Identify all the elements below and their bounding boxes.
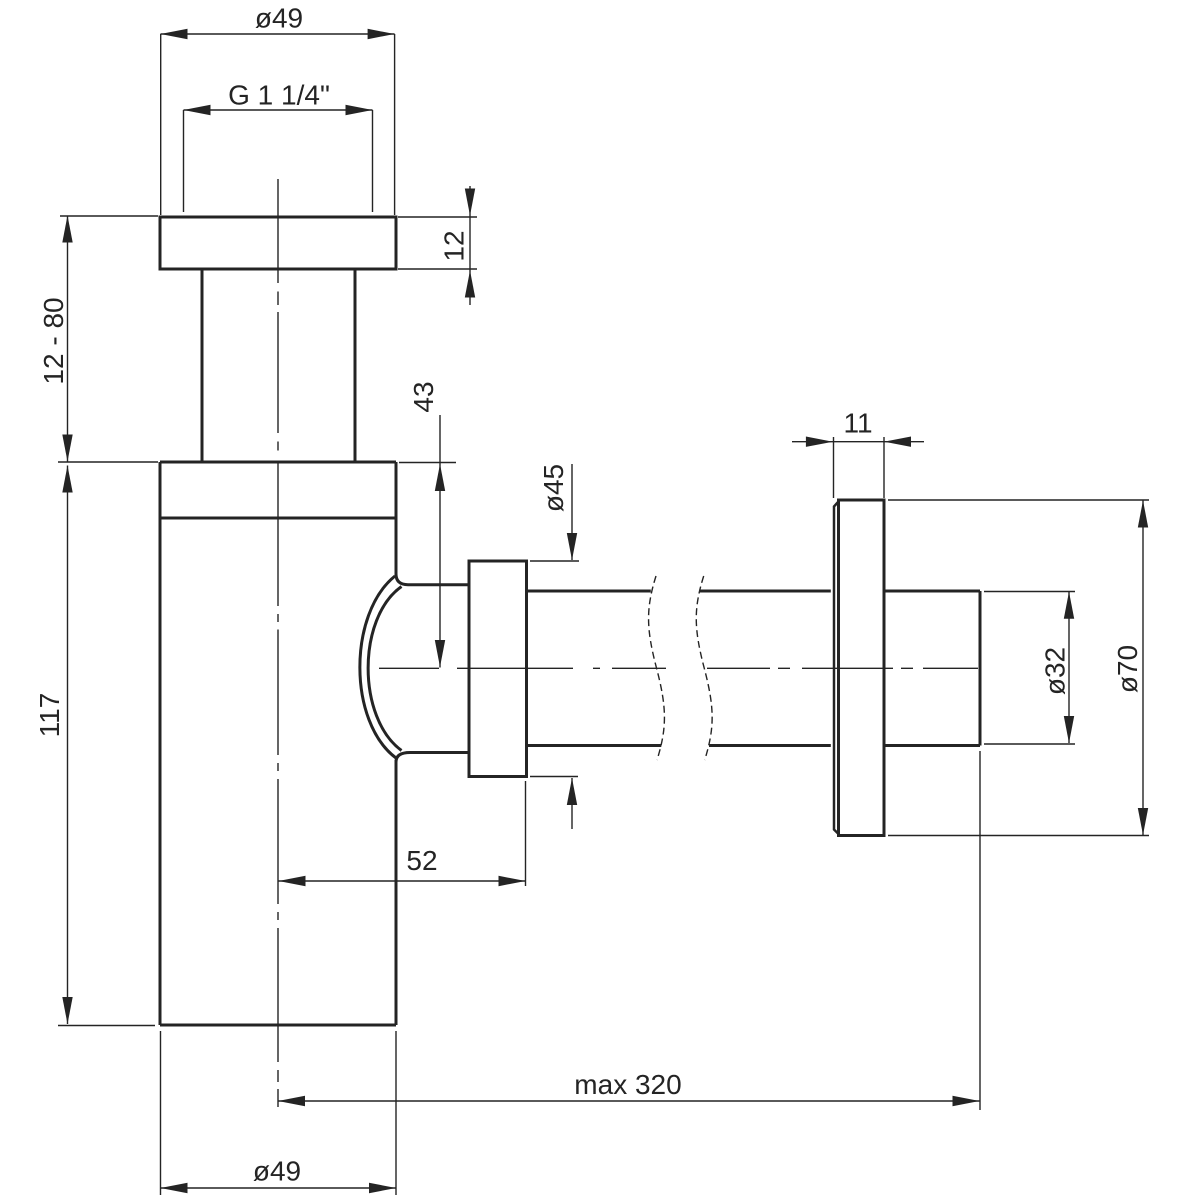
arrow o32 top	[1064, 592, 1074, 619]
svg-text:ø32: ø32	[1040, 647, 1071, 695]
svg-text:ø49: ø49	[255, 3, 303, 34]
svg-text:12 - 80: 12 - 80	[38, 297, 69, 384]
arrow o45 top	[567, 533, 577, 560]
ext lines G 1 1/4	[184, 110, 373, 212]
top nut flange	[160, 217, 396, 269]
svg-text:G 1 1/4": G 1 1/4"	[228, 80, 330, 111]
vertical centerline	[277, 179, 279, 1107]
inlet pipe	[202, 269, 355, 462]
dim line o45 bottom	[571, 778, 573, 829]
arrow 52 left	[279, 876, 306, 886]
svg-text:117: 117	[34, 693, 65, 738]
svg-text:11: 11	[843, 408, 872, 439]
arrow o49 top right	[368, 29, 395, 39]
svg-text:43: 43	[408, 381, 439, 412]
break wavy line left	[649, 576, 665, 760]
svg-text:ø45: ø45	[538, 464, 569, 512]
arrow 12 bottom	[465, 271, 475, 298]
horizontal centerline	[379, 667, 978, 669]
arrow max320 left	[278, 1096, 305, 1106]
dim line 117	[67, 466, 69, 1025]
svg-text:ø49: ø49	[253, 1156, 301, 1187]
dim line o45 top	[571, 464, 573, 560]
dim line 12 right	[469, 186, 471, 305]
arrow max320 right	[953, 1096, 980, 1106]
arrow 52 right	[499, 876, 526, 886]
arrow 12-80 bottom	[62, 435, 72, 462]
arrow 43 top	[435, 464, 445, 491]
svg-text:max 320: max 320	[574, 1069, 681, 1100]
wall flange lip	[834, 502, 839, 835]
arrow o32 bottom	[1064, 716, 1074, 743]
arrow G right	[346, 105, 373, 115]
arrow o45 bottom	[567, 778, 577, 805]
ext lines o45	[530, 561, 579, 777]
arrow o49 bottom left	[161, 1183, 188, 1193]
arrow 117 top	[62, 466, 72, 493]
dim line 52	[279, 880, 526, 882]
outlet outer bulge curve	[360, 576, 396, 758]
dim line G 1 1/4	[184, 109, 373, 111]
ext line 52	[525, 781, 527, 886]
dim line 12-80	[67, 216, 69, 462]
ext lines o70	[888, 500, 1149, 836]
compression nut	[469, 561, 527, 777]
arrow 43 bottom	[435, 640, 445, 667]
svg-text:ø70: ø70	[1112, 645, 1143, 693]
ext line top left	[60, 215, 158, 217]
svg-text:12: 12	[439, 230, 470, 261]
arrow 117 bottom	[62, 997, 72, 1024]
outlet tube segment left	[527, 591, 662, 746]
arrow 11 left	[806, 437, 833, 447]
arrow 12 top	[465, 189, 475, 216]
outlet stub bottom line	[410, 751, 469, 754]
outlet stub top line	[408, 583, 469, 586]
outlet inner bulge curve	[368, 587, 401, 751]
svg-text:52: 52	[406, 845, 437, 876]
dim line o49 bottom	[161, 1187, 397, 1189]
ext lines o32	[984, 592, 1075, 745]
arrow o70 bottom	[1138, 808, 1148, 835]
ext line bottom left	[58, 1025, 155, 1027]
dim line o32	[1068, 592, 1070, 743]
arrow 12-80 top	[62, 216, 72, 243]
dim line max 320	[278, 1100, 980, 1102]
outlet fillet top	[396, 574, 408, 585]
outlet tube segment middle	[700, 591, 831, 746]
ext lines 11	[834, 437, 885, 498]
body flange bottom line	[160, 517, 396, 520]
ext lines 12 right	[398, 217, 477, 269]
trap body outline	[160, 462, 396, 1025]
ext lines o49 top	[161, 34, 395, 215]
ext line mid left	[58, 461, 158, 463]
dim line o49 top	[161, 33, 395, 35]
arrow G left	[184, 105, 211, 115]
dim line 43	[439, 415, 441, 668]
ext line max 320	[979, 751, 981, 1110]
wall flange rosette	[839, 500, 885, 836]
dim line o70	[1142, 501, 1144, 836]
outlet fillet bottom	[396, 753, 410, 763]
arrow o70 top	[1138, 501, 1148, 528]
arrow 11 right	[884, 437, 911, 447]
outlet tube segment right	[884, 591, 980, 746]
ext line 43	[399, 462, 456, 464]
arrow o49 bottom right	[369, 1183, 396, 1193]
ext lines o49 bottom	[161, 1031, 397, 1195]
dim line 11	[792, 441, 924, 443]
break wavy line right	[696, 576, 712, 760]
arrow o49 top left	[161, 29, 188, 39]
